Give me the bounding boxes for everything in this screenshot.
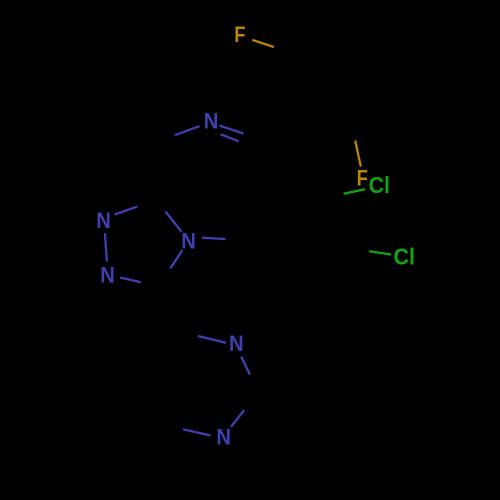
wire N5-C7 dark half — [150, 135, 175, 145]
wire C-Cl1 dark half — [322, 194, 344, 199]
bond Np1-C2p blue half — [241, 357, 250, 375]
svg-text:Cl: Cl — [369, 172, 390, 198]
bond F1 gold half — [252, 40, 274, 47]
wire N1-C8a dark half — [137, 200, 157, 207]
bond C2p-Np3 blue half — [231, 410, 244, 427]
wire Np3-C4p dark half — [156, 423, 184, 429]
bond F2 gold half — [355, 141, 361, 167]
svg-text:Cl: Cl — [394, 244, 415, 270]
wire N2-C3 dark half — [141, 282, 158, 287]
svg-text:N: N — [96, 209, 111, 233]
bond N1-N2 — [105, 233, 107, 261]
bond N5-C7 blue half — [175, 126, 200, 135]
bond N4-C8a blue half — [166, 212, 182, 232]
wire carbon half-bonds (near-black) — [137, 47, 369, 429]
svg-text:F: F — [357, 167, 368, 191]
bond Np3-C4p blue half — [183, 429, 211, 435]
wire C-F2 dark half — [348, 109, 355, 139]
bond N1-C8a blue half — [115, 207, 138, 215]
svg-text:F: F — [234, 24, 245, 48]
bond N2-C3 blue half — [120, 278, 141, 283]
wire C8a-N4 dark half — [157, 200, 166, 212]
wire C2p-Np3 dark half — [244, 393, 257, 410]
bond N4-C3 blue half — [170, 250, 182, 269]
wire C-F1 dark half — [274, 47, 296, 54]
bond Np1-C6p blue half — [198, 336, 226, 343]
wire Np1-C2p dark half — [250, 375, 258, 394]
wire N4-C5a dark half — [226, 239, 249, 240]
bond Cl1 green half — [344, 189, 366, 194]
svg-text:N: N — [229, 332, 244, 356]
wire Np1-C6p dark half — [170, 329, 198, 336]
svg-text:N: N — [181, 230, 196, 254]
bond N5=C6 main blue half — [220, 126, 244, 134]
wire N5=C6 main dark half — [244, 134, 270, 142]
svg-text:N: N — [204, 110, 219, 134]
wire N5=C6 inner dark half — [239, 141, 257, 148]
svg-text:N: N — [216, 426, 231, 450]
bond Cl2 green half — [369, 251, 391, 254]
wire C-Cl2 dark half — [347, 248, 369, 251]
wire N4-C3 dark half — [158, 269, 170, 288]
bond N5=C6 inner blue half — [221, 134, 239, 141]
svg-text:N: N — [100, 264, 115, 288]
bond N4-C5a blue half — [202, 238, 226, 240]
